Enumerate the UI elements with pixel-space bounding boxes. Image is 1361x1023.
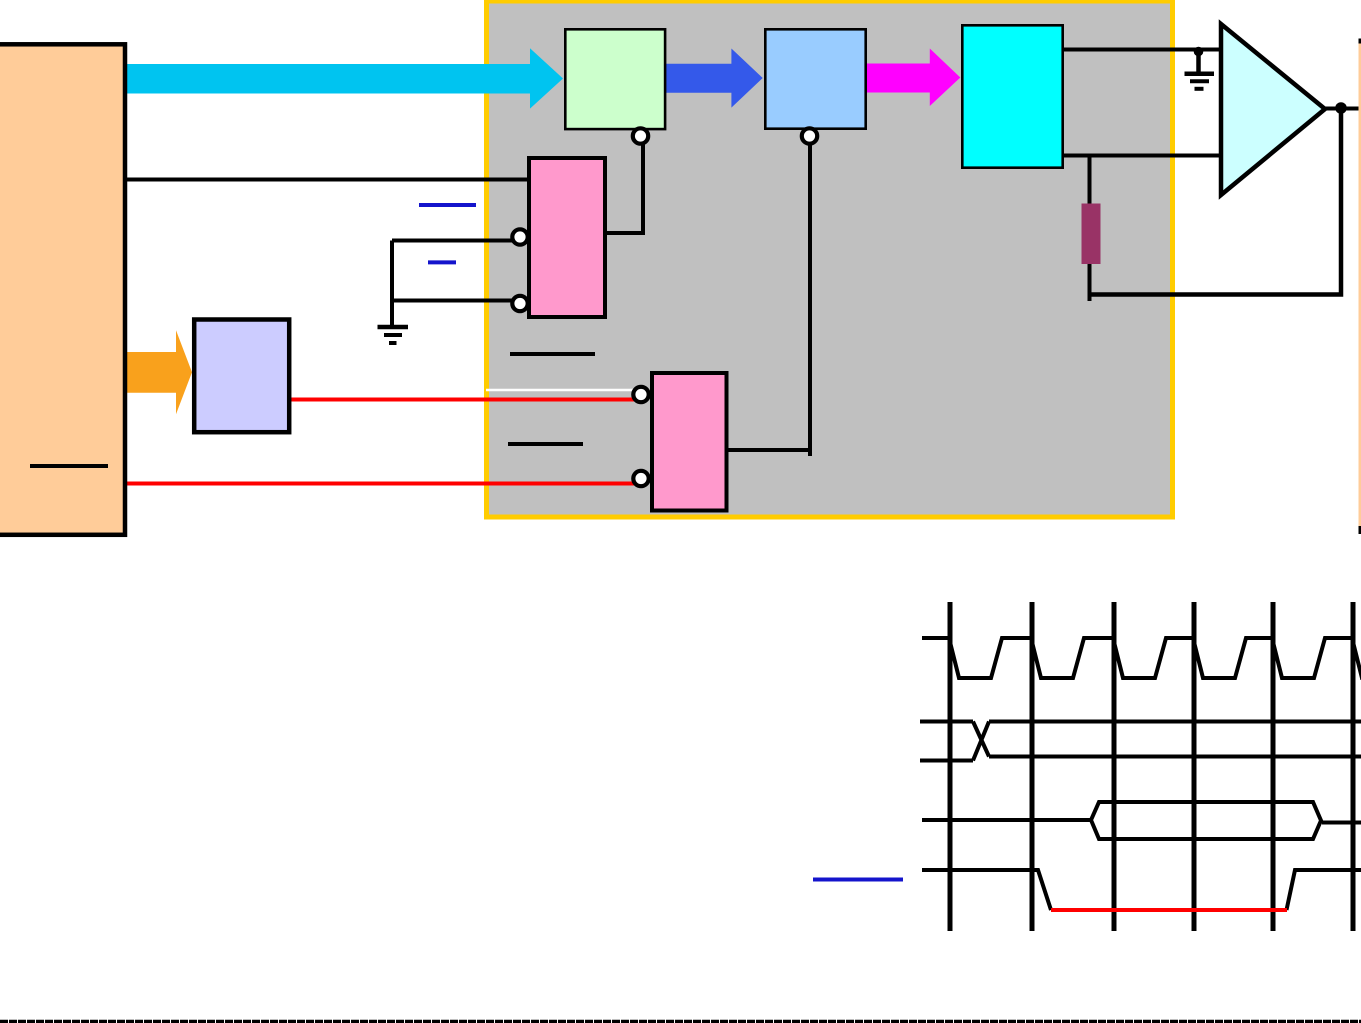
cyan block: [962, 25, 1062, 167]
right edge block (cut off): [1359, 39, 1361, 535]
red low segment: [1051, 908, 1287, 912]
wire (cyan block upper output to buffer): [1064, 48, 1221, 52]
wire (U2 bubble input lower): [392, 299, 515, 303]
wire (orange block to gate U2 input 1): [127, 178, 530, 182]
ground (near buffer): [1185, 52, 1215, 89]
timing grid line 3: [1112, 602, 1117, 931]
inversion bubble (U3 upper): [633, 387, 648, 402]
enable waveform (goes low): [922, 870, 1361, 910]
orange arrow (orange block to lavender block): [120, 330, 192, 414]
magenta arrow (blue to cyan block): [867, 49, 960, 107]
inversion bubble (U3 lower): [633, 471, 648, 486]
data valid hexagon waveform: [922, 802, 1321, 839]
timing grid line 2: [1030, 602, 1035, 931]
node dot (buffer output): [1335, 102, 1347, 114]
red wire (lavender block to U3 input 1): [291, 398, 634, 402]
wire (cyan block lower output to buffer): [1064, 154, 1221, 158]
controller box (grey region with yellow border): [487, 1, 1173, 517]
wire (U2 output to green block bubble): [605, 145, 643, 234]
cyan bus arrow: [127, 48, 563, 108]
resistor R1: [1082, 204, 1101, 265]
timing grid line 5: [1271, 602, 1276, 931]
red wire (orange block to U3 input 2): [127, 482, 634, 486]
inversion bubble (U2 upper): [512, 229, 527, 244]
wire (resistor branch vertical): [1088, 157, 1092, 301]
timing grid line 6: [1351, 602, 1356, 931]
timing grid line 1: [948, 602, 953, 931]
wire (blue block bubble down to U3 output net): [808, 145, 812, 457]
bus waveform lower rail: [920, 757, 1361, 761]
inversion bubble (blue block): [802, 128, 817, 143]
bus crossover X: [973, 722, 989, 761]
blue block: [765, 29, 865, 128]
data hexagon trailing line: [1322, 821, 1361, 825]
orange block (left, cut off): [0, 44, 125, 535]
bus waveform upper rail: [920, 720, 1361, 724]
ground (near U2): [378, 327, 409, 343]
gate U3 (pink block lower): [652, 373, 727, 511]
node dot (wire A / ground junction): [1194, 47, 1204, 57]
timing grid line 4: [1192, 602, 1197, 931]
inversion bubble (U2 lower): [512, 296, 527, 311]
wire (white trace to U3 input): [486, 389, 633, 392]
overline label A (in grey box): [510, 352, 595, 356]
overline label B (in grey box): [508, 442, 583, 446]
wire (U2 bubble input upper): [392, 239, 515, 243]
green block: [565, 29, 665, 129]
blue link underline (timing label): [813, 878, 903, 882]
bottom dashed separator: [0, 1020, 1361, 1023]
wire (buffer output): [1325, 107, 1359, 111]
wire (left stem to ground): [390, 241, 394, 328]
blue link underline 2: [428, 260, 456, 264]
gate U2 (pink block upper): [529, 158, 605, 317]
lavender block: [194, 320, 289, 433]
blue link underline 1: [419, 203, 476, 207]
buffer amplifier (triangle): [1221, 24, 1325, 195]
overline label inside orange block: [30, 464, 108, 468]
blue arrow (green to blue block): [666, 49, 763, 108]
wire (U3 output horizontal): [726, 448, 812, 452]
inversion bubble (green block): [633, 128, 648, 143]
wire (feedback from buffer output to resistor): [1090, 109, 1342, 295]
clock waveform: [922, 638, 1361, 678]
